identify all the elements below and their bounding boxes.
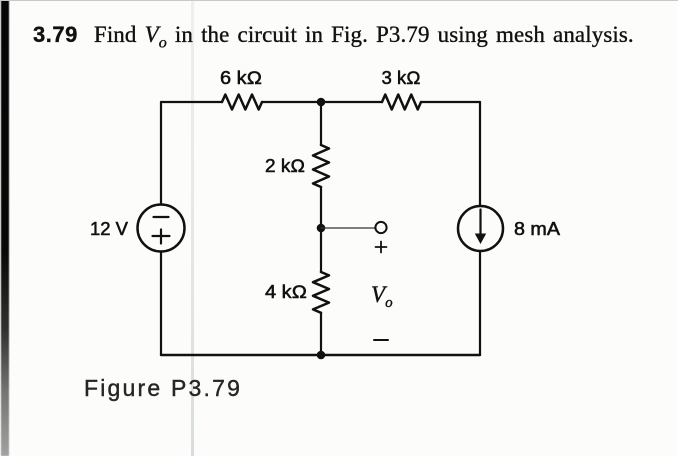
node dot bottom middle — [317, 351, 326, 360]
wire: top right segment — [421, 101, 480, 103]
voltage source minus sign — [154, 216, 169, 218]
wire: top middle segment — [262, 101, 382, 103]
resistor R 6k zigzag — [222, 95, 262, 110]
wire: bottom horizontal — [161, 354, 480, 356]
wire: middle vertical 2k to node — [320, 187, 322, 228]
faint page gutter line — [191, 0, 194, 456]
wire: middle vertical node to 2k — [320, 102, 322, 145]
svg-text:2 kΩ: 2 kΩ — [265, 156, 305, 176]
resistor R 4k zigzag — [313, 272, 329, 313]
problem statement text — [33, 22, 634, 53]
wire: left vertical bottom segment — [160, 252, 162, 356]
plus polarity mark for Vo — [376, 242, 387, 253]
resistor R 3k zigzag — [382, 95, 421, 110]
scan gutter shadow bar left edge — [1, 0, 9, 456]
wire: right vertical bottom segment — [479, 251, 481, 355]
wire: middle vertical 4k to bottom — [320, 313, 322, 355]
output terminal open circle — [375, 222, 386, 233]
svg-text:12 V: 12 V — [90, 219, 128, 239]
current source arrow head — [475, 234, 486, 245]
svg-text:6 kΩ: 6 kΩ — [220, 68, 262, 88]
svg-text:Vo: Vo — [371, 282, 393, 311]
output lead wire thin — [321, 227, 375, 229]
top edge scan line — [0, 0, 678, 1]
svg-text:4 kΩ: 4 kΩ — [265, 282, 307, 302]
current source I1 8mA circle — [458, 206, 503, 251]
figure caption — [84, 375, 242, 402]
voltage source plus sign — [153, 230, 170, 244]
svg-text:8 mA: 8 mA — [514, 219, 560, 239]
node dot middle — [317, 224, 326, 233]
node dot top middle — [317, 98, 326, 107]
resistor R 2k zigzag — [313, 145, 329, 187]
wire: top left segment to 6k — [161, 101, 222, 103]
wire: right vertical top segment — [479, 102, 481, 206]
current source arrow shaft — [479, 210, 481, 235]
svg-text:3 kΩ: 3 kΩ — [382, 68, 421, 88]
wire: left vertical top segment — [160, 102, 162, 205]
wire: middle vertical node to 4k — [320, 228, 322, 272]
voltage source V1 12V circle — [138, 205, 185, 252]
minus polarity mark for Vo — [374, 339, 388, 341]
